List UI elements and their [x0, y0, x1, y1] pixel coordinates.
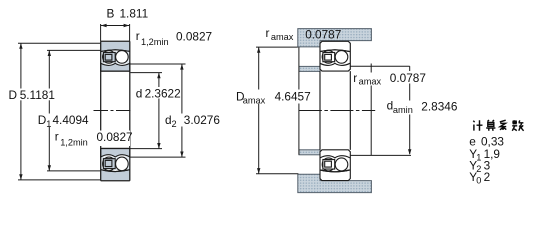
svg-text:1,2min: 1,2min — [141, 37, 169, 47]
inner ring band (blue) with raceway scallops — [101, 63, 130, 71]
bearing right face — [129, 41, 131, 181]
svg-text:2.8346: 2.8346 — [421, 99, 458, 113]
D arrow up — [19, 43, 22, 49]
right bearing side faces through bore gap — [320, 71, 350, 150]
ball row 1 right bottom — [322, 158, 335, 171]
char 数 — [512, 120, 523, 131]
svg-text:r: r — [353, 71, 357, 85]
svg-text:B: B — [107, 6, 115, 20]
d arrow down — [157, 143, 160, 149]
right bearing top section group — [320, 41, 350, 71]
housing section top (stippled) — [298, 29, 372, 47]
d arrow up — [157, 73, 160, 79]
housing section bottom (stippled) — [298, 174, 372, 192]
bore line bottom — [101, 147, 130, 149]
svg-text:0.0827: 0.0827 — [97, 130, 133, 144]
ball row 1 (left ball) — [103, 51, 116, 64]
ball row 2 (right ball) — [116, 51, 129, 64]
svg-text:amax: amax — [271, 32, 294, 42]
D arrow down — [19, 174, 22, 180]
cage rivet rect right bottom — [325, 161, 332, 167]
d extension line top — [130, 72, 162, 74]
shaft shoulder strip bottom — [299, 150, 320, 155]
cage rivet rect right fig — [325, 54, 332, 60]
svg-text:1,2min: 1,2min — [60, 138, 88, 148]
d2 extension line bottom — [130, 156, 185, 158]
svg-text:r: r — [136, 29, 140, 43]
char 系 — [500, 120, 507, 130]
bearing left face — [100, 41, 102, 181]
d dimension line — [158, 73, 160, 149]
ball zone tint bottom — [101, 157, 129, 170]
da min dimension line — [409, 66, 411, 154]
svg-text:2: 2 — [484, 170, 491, 184]
ball row 2 bottom — [116, 157, 129, 171]
da extension line bottom (right side) — [350, 154, 411, 156]
left figure centerline — [94, 110, 134, 112]
outer raceway arc right — [320, 50, 350, 52]
bearing OD bottom edge — [101, 180, 130, 182]
svg-text:0.0827: 0.0827 — [176, 30, 212, 44]
svg-text:r: r — [266, 26, 270, 40]
dimension B line — [101, 25, 129, 27]
cage rivet rect — [105, 54, 112, 60]
D1 arrow down — [48, 165, 51, 171]
svg-text:D: D — [9, 88, 18, 102]
D1 arrow up — [48, 50, 51, 56]
shaft shoulder strip top — [299, 66, 320, 71]
svg-text:r: r — [55, 129, 59, 143]
D extension line bottom — [18, 179, 100, 181]
outer ring band (top, blue) — [101, 42, 130, 52]
d2 arrow up — [180, 64, 183, 70]
cage rectangle right fig — [323, 53, 335, 62]
svg-text:3.0276: 3.0276 — [184, 113, 221, 127]
shaft/housing left face line — [298, 47, 300, 155]
inner ring band mirrored (blue) — [101, 170, 130, 180]
svg-text:5.1181: 5.1181 — [20, 88, 55, 102]
B arrow left — [101, 24, 107, 28]
inner raceway scallop right fig — [320, 63, 350, 65]
d2 extension line top — [130, 63, 185, 65]
Da arrow up — [257, 47, 260, 53]
outer ring box bottom (white) — [320, 150, 350, 181]
svg-text:D: D — [38, 113, 47, 127]
char 计 — [473, 120, 482, 131]
outer raceway arc over balls — [101, 50, 130, 52]
ball row 1 bottom — [103, 157, 116, 171]
outer raceway arc right bottom — [320, 170, 350, 172]
outer raceway arc — [101, 50, 130, 52]
D1 extension line top — [47, 49, 100, 51]
svg-text:amax: amax — [359, 77, 382, 87]
svg-text:0.0787: 0.0787 — [390, 71, 426, 85]
heading 计算系数 (drawn strokes) — [473, 120, 523, 131]
ball row 1 right fig — [322, 51, 335, 64]
da dimension line (tick vertical) — [370, 64, 372, 156]
D dimension line — [20, 43, 22, 180]
dimension B extension lines — [101, 24, 130, 41]
inner raceway scallop right bottom — [320, 156, 350, 158]
D1 extension line bottom — [47, 170, 100, 172]
raceway arc over balls bottom — [101, 170, 130, 172]
cage rectangle — [103, 53, 115, 62]
d2 dimension line — [181, 64, 183, 157]
Da max extension bottom — [256, 173, 298, 175]
Da max dimension line — [258, 47, 260, 174]
d extension line bottom — [130, 148, 162, 150]
outer ring box (white) — [320, 41, 350, 71]
svg-text:amax: amax — [243, 96, 266, 106]
inner ring band bottom — [101, 149, 130, 157]
B arrow right — [124, 24, 130, 28]
right figure centerline — [299, 110, 375, 112]
svg-text:0.0787: 0.0787 — [305, 27, 341, 41]
raceway arc over balls right fig — [320, 50, 350, 52]
left bearing bottom section (mirror) — [101, 148, 130, 180]
left bearing outline box — [101, 41, 130, 181]
cage rectangle bottom — [103, 159, 115, 169]
da extension line top (right side) — [350, 65, 409, 67]
left bearing top section group — [101, 42, 130, 71]
d2 arrow down — [180, 152, 183, 158]
svg-text:0: 0 — [476, 175, 481, 185]
ball row 2 right bottom — [335, 158, 348, 171]
cage rivet rect bottom — [105, 160, 112, 166]
Da max extension top — [256, 46, 298, 48]
svg-text:2: 2 — [172, 119, 177, 129]
right bearing bottom section (mirror) — [320, 150, 350, 181]
bearing OD top edge — [101, 40, 130, 42]
ball zone tint — [101, 51, 129, 63]
ball row 2 right fig — [335, 51, 348, 64]
svg-text:1: 1 — [46, 119, 51, 129]
da min arrow down — [408, 149, 411, 155]
cage rectangle right bottom — [323, 160, 335, 170]
svg-text:4.4094: 4.4094 — [53, 113, 90, 127]
svg-text:amin: amin — [393, 105, 413, 115]
bore line — [101, 70, 130, 72]
raceway arc over balls right bottom — [320, 170, 350, 172]
D1 dimension line — [48, 50, 50, 170]
svg-text:4.6457: 4.6457 — [275, 90, 311, 104]
outer raceway arc (bottom) — [101, 170, 130, 172]
char 算 — [486, 120, 495, 131]
Da arrow down — [257, 168, 260, 174]
svg-text:1.811: 1.811 — [120, 6, 149, 20]
svg-text:d: d — [136, 86, 143, 100]
D extension line top — [18, 42, 100, 44]
svg-text:2.3622: 2.3622 — [145, 86, 181, 100]
